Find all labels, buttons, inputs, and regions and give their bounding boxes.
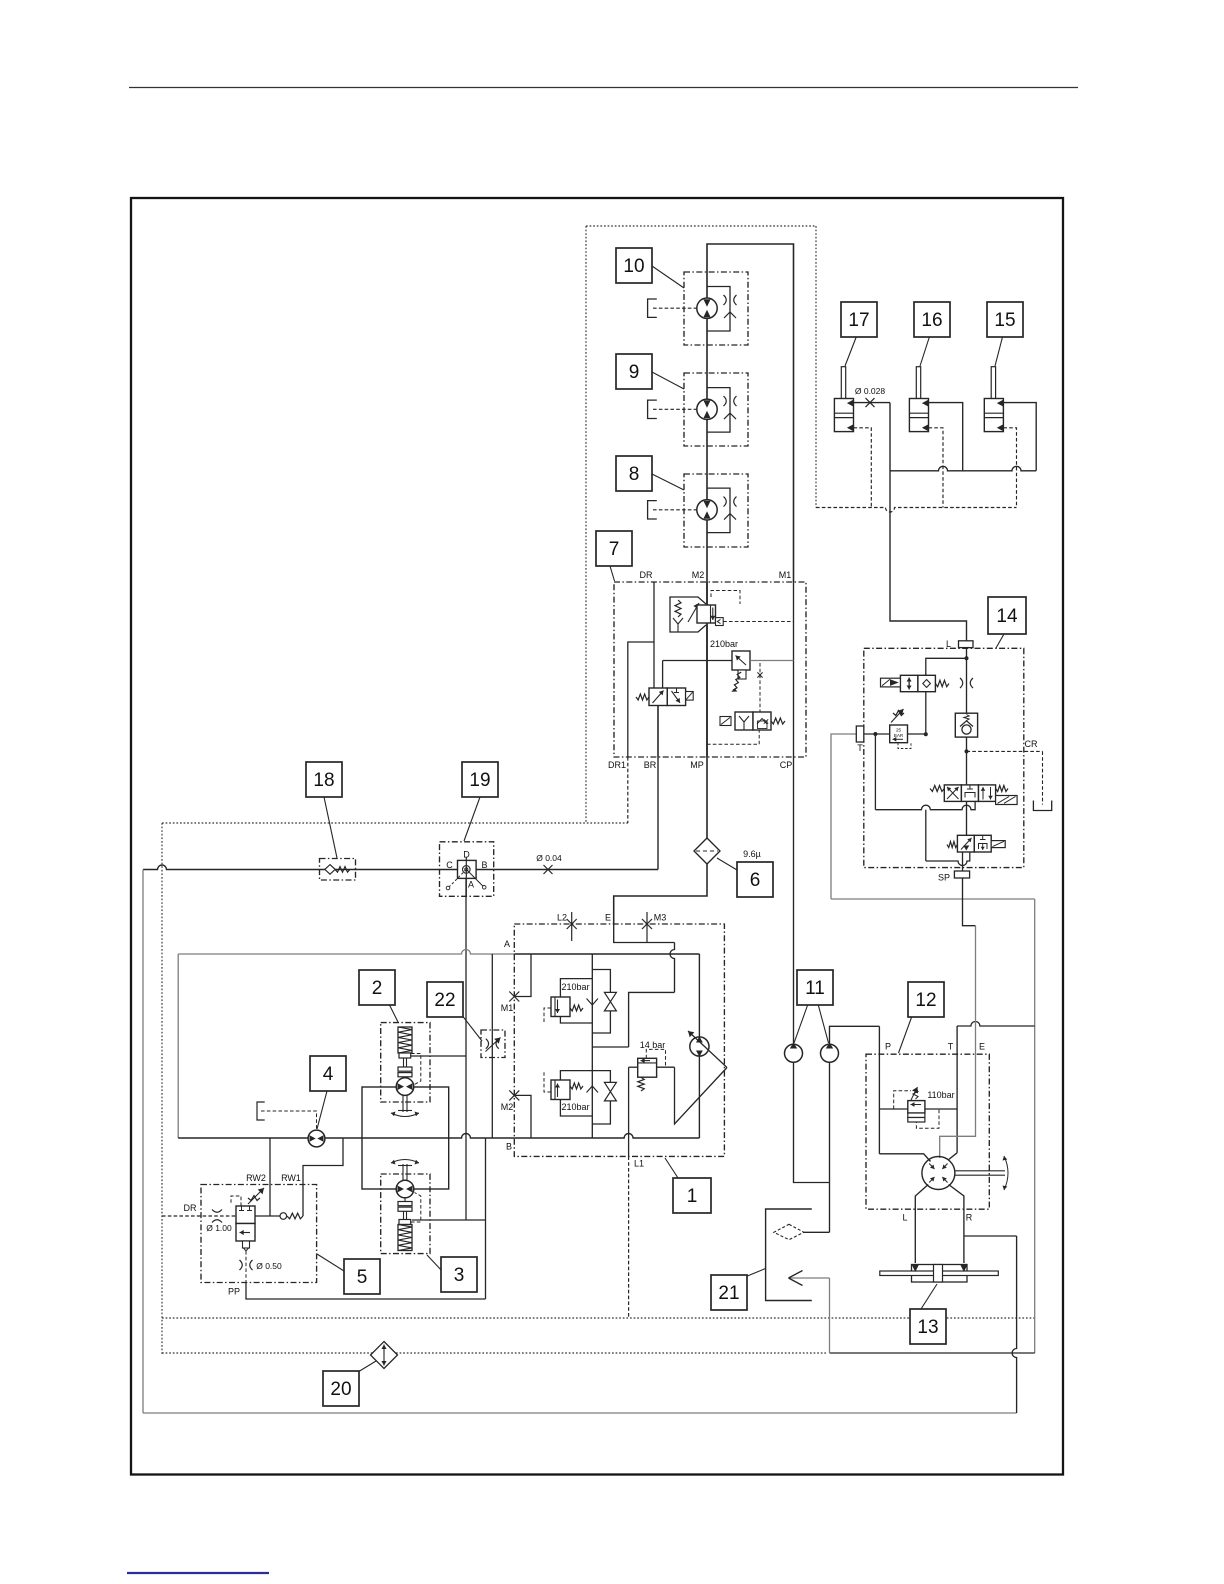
wire RW2 riser: [269, 1138, 271, 1216]
block 1 pump variable arrow: [688, 1031, 727, 1068]
block 1 14bar valve: [638, 1058, 657, 1077]
svg-text:L2: L2: [557, 913, 567, 923]
svg-text:RW1: RW1: [281, 1173, 301, 1183]
svg-text:17: 17: [848, 310, 869, 331]
label box 16: [914, 302, 950, 337]
svg-text:T: T: [948, 1042, 954, 1052]
label box 22: [427, 982, 463, 1017]
label connector 2: [389, 1004, 398, 1022]
svg-text:CR: CR: [1025, 739, 1038, 749]
svg-text:Ø 0.028: Ø 0.028: [855, 386, 886, 396]
label connector 8: [652, 474, 684, 490]
block 12 110bar relief valve: [879, 1108, 907, 1110]
hydraulic motor 9 bypass loop with throttle and check: [707, 388, 730, 433]
wire DR1 dashed below block7: [627, 757, 629, 823]
label box 8: [616, 456, 652, 491]
block 1 lower shutoff bridge: [592, 1071, 610, 1083]
block 12 E line entry: [940, 1054, 976, 1158]
tank 21 shape: [766, 1209, 812, 1301]
wire orifice-22 link A to B: [491, 954, 493, 1138]
valve block 5 dash-dot enclosure: [201, 1185, 317, 1283]
label box 2: [359, 970, 395, 1005]
block 1 L2 test port: [571, 912, 573, 941]
brake 2 pilot dashed: [411, 1054, 421, 1085]
label box 14: [988, 597, 1026, 634]
block 1 lower check mark on V1: [587, 1086, 599, 1093]
block 12 rotary valve internal arrows: [929, 1164, 934, 1170]
selector valve 19 vertical through: [465, 857, 467, 896]
label connector 11a: [794, 1004, 808, 1043]
hydraulic motor 8 drain dashed line: [653, 509, 697, 511]
svg-text:L: L: [946, 639, 951, 649]
label box 6: [737, 862, 773, 897]
cylinder linkage dashed line y507.5: [816, 508, 1017, 513]
block 7 pilot dashed to M1: [723, 621, 793, 623]
selector valve 19 solid branch with plug: [466, 869, 483, 886]
brake 3 pilot dashed: [411, 1193, 421, 1223]
block 12 T approach to rotary valve: [949, 1153, 957, 1160]
block 1 upper check mark on V1: [587, 999, 599, 1006]
block 14 L line: [966, 648, 968, 714]
wire radiator R branch: [964, 1235, 1017, 1237]
blue footer rule: [127, 1572, 269, 1574]
label connector 3: [427, 1255, 443, 1272]
block 12 fan shaft: [955, 1170, 1005, 1172]
block 12 P line: [878, 1026, 880, 1154]
cylinder 15 body: [984, 399, 1003, 432]
page top rule: [129, 87, 1078, 89]
cylinder 15 port arrows: [997, 400, 1004, 407]
svg-text:RW2: RW2: [246, 1173, 266, 1183]
block 14 valve spring: [935, 680, 949, 686]
svg-text:15: 15: [994, 310, 1015, 331]
block 14 branch to solenoid valve: [926, 658, 967, 675]
wire tank riser with inflow arrow: [829, 1278, 831, 1353]
wire bottom return y1413: [143, 1412, 1017, 1414]
svg-text:A: A: [468, 880, 474, 890]
block 1 lower shutoff hourglass: [604, 1082, 616, 1101]
wire M2-M1 top loop: [707, 244, 794, 838]
block 14 SP port: [954, 871, 969, 878]
cylinder 16 bottom port dashed link: [929, 428, 944, 508]
svg-text:E: E: [605, 913, 611, 923]
cylinder 16 top port line: [929, 403, 963, 471]
cylinder 16 rod: [916, 367, 920, 414]
valve 5 reducing valve body: [236, 1206, 255, 1224]
pump 4 drain dashed: [261, 1111, 317, 1129]
wire MP below filter to E port: [614, 864, 707, 924]
block 1 E/M3 header: [614, 924, 647, 943]
label connector 16: [920, 335, 930, 366]
block 12 L outlet: [915, 1185, 928, 1264]
svg-text:A: A: [504, 939, 510, 949]
label connector 12: [899, 1016, 913, 1053]
orifice 22 dash-dot box: [481, 1030, 505, 1058]
cylinder 15 top port line: [1003, 403, 1036, 471]
svg-text:L1: L1: [634, 1159, 644, 1169]
block 12 valve output to T: [925, 1108, 957, 1110]
svg-text:9: 9: [629, 362, 640, 383]
block 14 3/2 pilot valve: [957, 835, 974, 852]
block 1 variable pump circle: [690, 1037, 709, 1056]
svg-text:B: B: [506, 1142, 512, 1152]
svg-text:14: 14: [996, 606, 1018, 627]
valve 5 drain dashed with orifice 0.50: [245, 1251, 247, 1283]
wire T branch to block12 T port: [957, 1022, 1035, 1027]
wire B-line inside block 1: [514, 1134, 699, 1139]
svg-text:22: 22: [434, 990, 455, 1011]
block 14 L through spool to lower valve: [966, 801, 968, 835]
svg-text:6: 6: [750, 870, 761, 891]
brake 3 dash-dot enclosure: [381, 1174, 430, 1254]
cylinder 17 top port line with orifice: [854, 402, 891, 404]
selector valve 19 center circle: [463, 866, 471, 874]
block 14 spool springs and solenoid: [930, 786, 944, 792]
label connector 4: [317, 1091, 327, 1129]
cylinder 17 bottom port dashed link: [854, 428, 872, 508]
label connector 9: [652, 372, 684, 389]
hydraulic motor 9 drain bracket: [648, 400, 657, 418]
drain dotted horizontal y1353 to tank: [162, 1352, 826, 1354]
svg-text:C: C: [446, 860, 453, 870]
svg-text:B: B: [481, 860, 487, 870]
svg-text:210bar: 210bar: [710, 639, 738, 649]
svg-text:MP: MP: [690, 760, 704, 770]
svg-text:L: L: [902, 1213, 907, 1223]
block 7 M2-MP line through block: [706, 582, 708, 757]
hydraulic motor 9 circle: [697, 399, 717, 419]
label box 7: [596, 531, 632, 566]
block 7 flow control valve body outline: [670, 597, 706, 632]
tank 21 breather link: [804, 1231, 830, 1233]
cylinder 17 rod: [841, 367, 845, 414]
wire tank inflow line and arrow: [789, 1277, 830, 1279]
svg-text:Ø 0.04: Ø 0.04: [536, 853, 562, 863]
svg-text:M3: M3: [654, 913, 667, 923]
label box 19: [462, 762, 498, 797]
brake 3 spring housing: [398, 1225, 412, 1251]
svg-text:210bar: 210bar: [561, 982, 589, 992]
cylinder 16 body: [909, 399, 928, 432]
label box 1: [673, 1178, 711, 1213]
svg-text:7: 7: [609, 539, 620, 560]
block 14 CR dashed line: [967, 750, 1043, 752]
block 7 DR drop: [653, 582, 655, 688]
filter 20 flow arrows: [383, 1345, 385, 1356]
hydraulic motor 8 dash-dot enclosure: [684, 474, 748, 547]
pressure gauge 11a circle: [785, 1044, 803, 1062]
svg-text:PP: PP: [228, 1287, 240, 1297]
svg-text:P: P: [885, 1042, 891, 1052]
block 14 T drop from dot: [874, 734, 876, 810]
block 7 relief inlet line: [663, 660, 732, 662]
label box 10: [616, 248, 652, 283]
svg-text:M1: M1: [779, 570, 792, 580]
label connector 22: [461, 1014, 482, 1041]
pump 4 drain bracket: [257, 1102, 265, 1120]
hydraulic motor 10 circle: [697, 298, 717, 318]
label connector 19: [464, 797, 480, 841]
block 14 lower crossover y861: [926, 852, 970, 866]
valve 5 check valve to RW1: [255, 1215, 280, 1217]
wire M1 port jog: [514, 954, 531, 997]
svg-text:12: 12: [915, 990, 936, 1011]
wire RW1 riser step: [303, 1138, 343, 1216]
block 12 P approach to rotary valve: [879, 1154, 930, 1162]
block 12 R outlet: [949, 1185, 964, 1264]
label connector 11b: [818, 1004, 829, 1043]
block 7 valve to BR port: [657, 706, 659, 758]
block 14 check valve: [955, 713, 977, 737]
wire return manifold y899: [831, 898, 1035, 900]
svg-text:14 bar: 14 bar: [640, 1040, 666, 1050]
label connector 21: [745, 1269, 766, 1278]
label connector 1: [665, 1158, 678, 1178]
brake 2 rotation arrows: [391, 1113, 419, 1117]
label connector 13: [921, 1284, 937, 1309]
cylinder 15 bottom port dashed link: [1003, 428, 1016, 508]
cylinder 17 body: [834, 399, 853, 432]
brake 3 motor circle: [396, 1180, 414, 1198]
block 14 solenoid actuator: [881, 678, 901, 687]
label connector 15: [995, 335, 1003, 366]
block 1 E drop to 14bar valve: [670, 943, 675, 993]
label box 5: [344, 1259, 380, 1294]
hydraulic motor 9 dash-dot enclosure: [684, 373, 748, 446]
block 1 pump control rod: [675, 1067, 728, 1124]
block 14 T port: [856, 726, 864, 742]
label box 17: [841, 302, 877, 337]
hydraulic motor 10 drain dashed line: [653, 307, 697, 309]
svg-text:1: 1: [687, 1186, 698, 1207]
block 14 below check to CR junction: [966, 737, 968, 785]
svg-text:DR1: DR1: [608, 760, 626, 770]
block 7 relief outlet to CP gray: [750, 660, 794, 662]
block 7 MP pilot dashed: [707, 730, 759, 744]
block 14 lower feed horizontal y809.7 with hops: [875, 801, 975, 809]
svg-text:210bar: 210bar: [561, 1102, 589, 1112]
label connector 7: [610, 566, 615, 581]
svg-text:10: 10: [623, 256, 644, 277]
block 7 relief valve 210bar: [732, 651, 750, 670]
brake 3 input shaft: [402, 1164, 404, 1181]
drain boundary dotted top edge: [586, 225, 816, 227]
wire gauge2 bottom to tank breather riser: [829, 1062, 831, 1232]
wire brake release comp3 branch to PP riser: [412, 1219, 486, 1221]
block 14 SP drop: [962, 852, 964, 871]
svg-text:DR: DR: [184, 1203, 197, 1213]
block 7 right pilot valve: [735, 712, 753, 730]
valve 5 pilot dashed box and adjust arrow: [231, 1196, 241, 1206]
wire pump feed y1138 left of block1: [178, 1134, 514, 1139]
svg-text:M2: M2: [692, 570, 705, 580]
check valve 18 dash-dot box: [320, 859, 356, 881]
block 7 solenoid valve left: [649, 688, 667, 706]
svg-text:4: 4: [323, 1064, 334, 1085]
svg-text:19: 19: [469, 770, 490, 791]
block 7 flow control valve square: [697, 605, 716, 623]
label connector 5: [317, 1254, 344, 1271]
svg-text:11: 11: [805, 978, 825, 999]
cylinder common pressure line y470.8: [890, 466, 1036, 471]
brake 2 dash-dot enclosure: [381, 1023, 430, 1102]
wire A-line left loop: [177, 954, 179, 1138]
cylinder 17 piston: [834, 412, 853, 414]
block 7 drop from relief line into valve: [662, 661, 664, 689]
svg-text:E: E: [979, 1042, 985, 1052]
block 7 flow control adjust arrow: [688, 603, 699, 622]
block 12 rotary fan valve circle: [922, 1157, 955, 1190]
svg-text:8: 8: [629, 464, 640, 485]
drain boundary dotted left vertical x162: [161, 823, 163, 1355]
wire cylinder feed drop to block14 L: [890, 403, 967, 641]
brake 2 motor circle: [396, 1078, 414, 1096]
wire L1 inside block1 from 14bar valve: [628, 1067, 630, 1156]
block 14 reducing valve 25bar: [890, 725, 908, 743]
block 14 spool valve internals: [947, 787, 959, 799]
block 7 dash-dot enclosure: [614, 582, 806, 757]
block 7 relief pilot dashes: [759, 663, 761, 712]
block 12 T line: [956, 1026, 958, 1153]
block 1 lower relief 210bar bridge: [560, 1071, 592, 1080]
svg-text:SP: SP: [938, 873, 950, 883]
wire BR from block7 down and left: [657, 706, 659, 870]
svg-text:25: 25: [896, 728, 902, 733]
block 1 14bar pilot dashed: [646, 1049, 665, 1067]
gearbox rectangle: [362, 1087, 449, 1189]
block 1 upper relief valve 210bar: [551, 997, 570, 1017]
block 1 14bar spring below: [638, 1077, 644, 1091]
brake 3 shaft: [403, 1211, 405, 1219]
hydraulic motor 10 drain bracket: [648, 299, 657, 317]
svg-text:5: 5: [357, 1267, 368, 1288]
hydraulic motor 8 drain bracket: [648, 501, 657, 519]
selector valve 19 dashed branch with plug: [450, 869, 467, 886]
block 1 upper shutoff bridge: [592, 970, 610, 993]
brake 3 piston: [399, 1220, 411, 1225]
block 7 flow control side tab with pilot: [716, 618, 724, 626]
orifice 22 adjustable restrictor: [486, 1039, 489, 1049]
check valve 18 poppet and spring: [325, 865, 335, 875]
cylinder 17 port arrows: [847, 400, 854, 407]
selector valve 19 dash-dot box: [440, 842, 494, 897]
block 12 110bar pilot dashes: [894, 1091, 911, 1109]
label box 11: [797, 970, 833, 1005]
label connector 18: [324, 797, 337, 858]
wire A-line inside block 1: [514, 953, 699, 955]
valve 5 bottom nozzle: [243, 1241, 250, 1248]
hydraulic motor 8 circle: [697, 500, 717, 520]
label box 4: [310, 1056, 346, 1091]
block 14 L throttle: [960, 678, 963, 688]
wire DR dashed into component 5: [162, 1215, 236, 1217]
label connector 20: [358, 1361, 376, 1372]
valve 5 orifice 1.00: [212, 1210, 222, 1213]
svg-text:16: 16: [921, 310, 942, 331]
wire brake release comp2 branch: [411, 1055, 466, 1057]
svg-text:D: D: [463, 850, 470, 860]
brake 2 output shaft: [402, 1095, 404, 1112]
svg-text:M2: M2: [501, 1102, 514, 1112]
block 7 inner drain to DR1: [628, 642, 654, 757]
wire SP below block14: [963, 878, 976, 926]
block 1 dash-dot enclosure: [514, 924, 724, 1156]
label box 18: [306, 762, 342, 797]
cylinder 15 rod: [991, 367, 995, 414]
wire brake release x466 from BR line: [465, 870, 467, 1221]
label box 20: [323, 1371, 359, 1406]
block 7 flow control spring and drain Y: [675, 600, 681, 617]
drain dotted horizontal y1318: [162, 1317, 1035, 1319]
block 14 2/2 line continues down: [925, 810, 927, 861]
hydraulic motor 10 bypass loop with throttle and check: [707, 287, 730, 332]
block 12 fan rotation arc: [1004, 1156, 1008, 1190]
svg-text:BAR: BAR: [894, 733, 904, 738]
block 14 valve drop to T line: [925, 692, 927, 735]
svg-text:M1: M1: [501, 1003, 514, 1013]
block 14 L port: [959, 641, 974, 648]
label connector 17: [845, 335, 857, 366]
tank 21 breather diamond dashed: [774, 1224, 804, 1239]
wire M2 port jog: [514, 1095, 531, 1138]
cylinder 16 piston: [909, 412, 928, 414]
label box 3: [441, 1257, 477, 1292]
label box 9: [616, 354, 652, 389]
hydraulic motor 9 drain dashed line: [653, 408, 697, 410]
svg-text:20: 20: [330, 1379, 351, 1400]
outer diagram frame: [131, 198, 1063, 1475]
block 1 14bar connections: [629, 1066, 638, 1068]
wire PP riser x485.5: [485, 1138, 487, 1299]
wire tank return y1353: [830, 1352, 1035, 1354]
selector valve 19 inner square: [458, 860, 477, 878]
svg-text:R: R: [966, 1213, 973, 1223]
wire BR left drop x143: [142, 870, 144, 1414]
block 14 dash-dot enclosure: [864, 648, 1024, 867]
filter 20 diamond: [371, 1342, 398, 1369]
block 1 M2 test port: [509, 1090, 519, 1100]
svg-text:Ø 0.50: Ø 0.50: [256, 1261, 282, 1271]
label box 15: [987, 302, 1023, 337]
block 7 M1-CP line through block: [793, 582, 795, 757]
block 14 T line horizontal: [864, 733, 926, 735]
svg-text:18: 18: [313, 770, 334, 791]
svg-text:21: 21: [718, 1283, 739, 1304]
drain boundary dotted line top-left vertical: [585, 226, 587, 823]
filter 6 diamond: [694, 838, 720, 864]
pump 4 circle: [308, 1130, 325, 1147]
svg-text:9.6µ: 9.6µ: [743, 849, 761, 859]
block 1 lower relief valve 210bar: [551, 1080, 570, 1100]
brake 2 piston: [399, 1053, 411, 1058]
block 7 relief drain gland and spring: [738, 670, 746, 679]
svg-text:Ø 1.00: Ø 1.00: [206, 1223, 232, 1233]
ground tank symbol for CR: [1033, 801, 1051, 811]
block 1 work line V1: [591, 954, 593, 1138]
label box 12: [908, 982, 944, 1017]
label box 13: [910, 1309, 946, 1344]
hydraulic motor 8 bypass loop with throttle and check: [707, 488, 730, 532]
block 14 spool valve 6 port: [944, 785, 961, 802]
label box 21: [711, 1275, 747, 1310]
radiator 13 fan symbol: [912, 1265, 968, 1283]
wire T-return from block14 T port: [831, 734, 857, 899]
wire SP to block12 E: [975, 926, 977, 1054]
wire PP bottom run: [246, 1283, 486, 1299]
drain boundary dotted right vertical: [815, 226, 817, 508]
brake 2 spring housing: [398, 1027, 412, 1053]
wire gauge2 top riser to P: [830, 1026, 880, 1044]
